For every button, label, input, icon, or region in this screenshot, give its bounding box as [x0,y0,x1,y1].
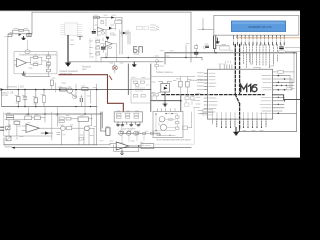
bottom bus y144.8 [4,144,97,146]
svg-text:Таймер защиты: Таймер защиты [156,71,173,74]
faint enclosure right edge [154,108,194,144]
MCU right pins + wires [273,76,297,114]
PSU fuse box [93,16,96,18]
ladder rung 4 [43,90,45,107]
wire segment y57.5 left part corners [101,53,106,62]
resistor [14,121,20,124]
small box right of MCU top [278,70,283,73]
wire input row [8,33,32,35]
rotated label column 1 [120,30,122,54]
verticals to bottom bus [62,121,95,144]
circle small right [46,64,50,67]
pin end ticks [234,43,285,46]
PSU box2 [97,16,100,18]
wires above MCU from LCD bend [251,53,274,69]
regulator pair 1 [116,113,121,115]
emitter diagonal [71,93,76,97]
PSU tiny parts [101,22,104,24]
svg-text:Реле: Реле [176,79,182,81]
MCU left-bottom stub wire [200,114,213,125]
tiny label specks [5,15,263,142]
antenna T x80 [78,36,83,39]
LCD pin labels [234,40,285,43]
verticals [9,114,45,136]
diode D left [18,33,23,35]
extra pin row y85.5 [273,85,295,87]
MCU lower-left pins [204,98,208,114]
svg-text:Блок управления вентилятором: Блок управления вентилятором [157,139,191,141]
output box [141,144,154,149]
junction dots right of MCU [278,75,286,114]
svg-text:контр.: контр. [142,147,148,149]
connector ticks [156,26,159,30]
small cap c [206,46,209,47]
MCU top pins [220,65,232,70]
inner dots [155,113,172,136]
small marks [57,132,60,134]
inner parts [134,81,138,83]
optocoupler box [161,84,170,93]
dashed wire into MCU left [190,79,208,81]
svg-text:Корпус: Корпус [5,147,13,149]
faint box right of PSU [137,26,143,29]
wires right edge verticals [290,53,294,90]
diode dark PSU low [106,37,109,40]
mid-bottom cluster boxes [59,117,64,119]
left connector dark [106,128,110,136]
box inner bottom text [157,135,175,137]
pot with arrow [6,126,10,129]
svg-text:50 Ом: 50 Ом [1,94,8,97]
LCD module outer box [214,15,299,35]
diode D4 dark down [106,37,109,40]
tiny circle PSU low [109,46,112,49]
PSU low wires [100,38,117,62]
wires LCD to MCU verticals [244,45,278,69]
opamp DA1 [17,59,27,67]
BP sublabel [134,53,139,55]
bold dashed vertical 2 [239,45,241,95]
wire enclosure left vertical [31,12,33,34]
main input bus y89.5 [2,89,151,91]
resistor col3 [96,53,100,55]
red wire main [59,75,123,112]
box edge x51 [51,112,53,140]
opto ground [163,92,167,106]
bus bottom y106.5 [2,106,97,108]
small box right of module [183,126,188,129]
right column resistor 1 [47,56,51,59]
dark cap right area [280,47,283,49]
thick dark vertical x68 [67,36,69,63]
box top pin stubs [158,109,176,112]
small marks col [90,41,93,54]
bottom long wire y147.7 [13,147,192,149]
sub-board pins [118,122,140,125]
output [129,145,141,147]
svg-text:Измерительный преобразователь: Измерительный преобразователь [19,54,57,57]
lamp circle with red mark [112,66,117,71]
vertical x150.8 [150,64,152,112]
wire left long vertical [7,37,9,90]
wire y100.7 dark [151,100,181,102]
left arrowhead [11,147,14,149]
wire right loop vertical [296,53,298,132]
mid-right module box [131,79,151,103]
grounds under subboard [117,125,140,126]
input arrow left [1,88,4,91]
resistor R top-left [19,29,24,31]
LCD left ground [216,38,219,43]
wire module bottom out [25,72,50,77]
feedback loop [114,145,139,151]
wire x203 LCD feed [203,19,213,30]
right column resistor 2 [47,63,51,66]
MCU right inner pin names [260,76,271,114]
bottom-mid module box [153,111,183,137]
junction dots on buses [105,57,107,59]
wire bus y61.8 [68,61,163,63]
double vertical into MCU area [214,36,216,49]
wire x165 drop [164,53,166,64]
PSU opamp triangle [98,27,104,32]
circle on module top [25,50,30,54]
MCU bottom pin stubs dotted [217,119,266,127]
PSU wires vertical [94,18,116,37]
dark cap x195 [195,52,198,54]
transistor circle 1 [159,117,165,122]
cap vertical pair [80,98,82,101]
left measurement module box [14,52,57,74]
bus left vertical [1,90,3,107]
PSU right column wires [90,38,96,62]
ladder rung 2 cap [24,90,26,107]
svg-text:Делитель 1:100: Делитель 1:100 [7,86,25,89]
resistor col1 [96,40,100,42]
small box y137 [79,137,83,140]
two boxes left of MCU bottom pins [203,109,212,111]
MCU label M16 [241,85,257,92]
transistor circle on bus [67,88,73,93]
ladder rung 3 resistor [35,90,37,107]
circle top module stub [27,40,29,50]
small box with label right [287,88,292,90]
relay box K1 [115,20,122,23]
cap dark PSU low [102,47,105,49]
wire y76.5 mid [151,76,195,78]
MCU left pins [204,73,208,90]
pot bottom-left [6,136,11,141]
bold dashed elbow down [235,95,239,128]
right column resistor 3 [47,69,51,72]
small box on bus right [82,87,88,90]
crystal circle [278,50,285,54]
MCU box U1 [208,69,273,119]
inner wires [156,113,177,135]
regulator pair 3 [134,113,139,115]
dark elbow right of MCU [273,95,301,100]
opamp big [26,124,40,132]
resistors pair mid [179,81,183,87]
PSU wire top [93,18,122,37]
diode D2 dark [111,16,114,18]
box after [66,126,72,129]
bottom opamp DA3 [116,142,129,150]
ground under x68 [66,63,71,66]
wire enclosure right vertical [190,12,192,62]
circle t2 [84,126,89,131]
column wires [47,52,49,77]
LCD blue screen [231,21,285,32]
wire x186 drop [185,45,187,58]
module wires [31,57,47,64]
net labels left of enclosure edge [151,25,157,30]
resistor Rf1 [33,56,38,58]
module ground [22,72,25,75]
regulator pair 2 [125,113,130,115]
orange wire from LCD [237,36,301,38]
box row [25,116,32,120]
short verticals linking buses [28,90,85,115]
ladder rung 1 resistor [17,90,19,107]
bottom-left oscillator: bus y114 [5,113,102,115]
ladder dots [1,89,45,108]
LCD pins [234,35,285,38]
box X1 input [8,34,12,36]
three connector circles [119,131,123,135]
label BP [134,47,143,53]
comparator triangle PSU low [105,41,112,46]
diode in box [164,87,168,90]
diode arrow right [45,131,49,134]
wire y119.8 [5,118,45,120]
rotated label column 2 [128,30,130,44]
small parts left of opto [151,94,154,96]
wire to R [13,30,30,34]
bold dashed horizontal bus [162,94,264,96]
resistor col2 [96,47,100,49]
small parts above mid module y64-70 [155,65,159,67]
ground mid dark [132,62,136,66]
ellipse small [72,95,77,99]
crystal ZQ1 [27,33,31,36]
bold dashed vertical 1 [234,45,236,95]
divider row above bottom opamp [118,133,160,135]
DIP IC U2 (faint) [65,23,77,35]
svg-text:WH1602B-YGK-CTK: WH1602B-YGK-CTK [248,26,272,29]
MCU bottom pin names vertical [213,113,267,119]
wire top enclosure horizontal [32,11,191,13]
diode D3 dark [109,27,113,30]
sub-board box [114,112,142,122]
vertical x128 [127,64,129,95]
circle t1 [61,126,66,130]
letterbox background [0,0,300,168]
red stub [110,76,112,80]
schematic paper [0,10,300,157]
ground under MCU [234,128,239,135]
transistor circle 2 [160,124,167,130]
stacked boxes [7,115,14,117]
cap C el dark [92,32,95,33]
resistor Rf2 [33,63,38,65]
wire bus y57.5 [101,58,202,61]
MCU top pin labels [219,61,231,64]
wire bottom loop [238,130,297,132]
left small resistor vertical [50,80,53,86]
wire bus y52.8 [165,52,297,54]
MCU left pin labels [198,73,204,90]
opamp inputs [97,144,117,145]
ground G1 [22,37,25,40]
small boxes right [185,97,189,100]
inner right column rects [175,116,179,118]
opamp ground [120,150,123,154]
vertical x180.8 [180,95,182,112]
dark diode low PSU [123,32,126,35]
series resistor on bus [60,88,66,91]
MCU left inner pin names [209,73,217,112]
crystal box area mid [220,46,229,50]
